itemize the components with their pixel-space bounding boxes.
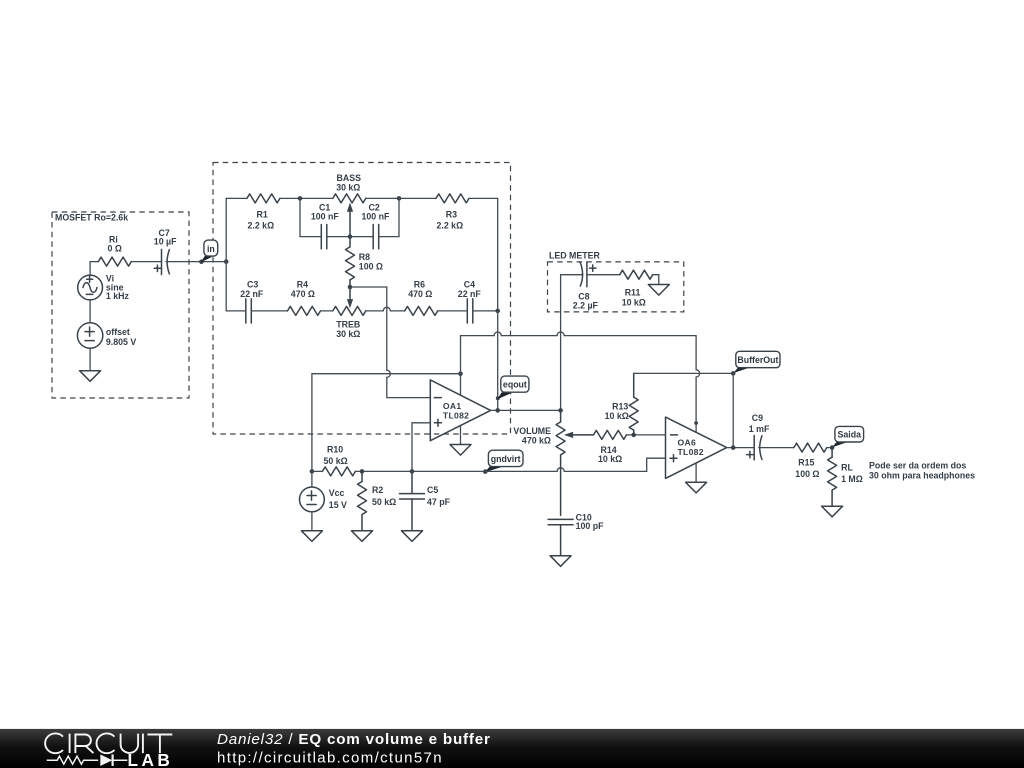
svg-text:gndvirt: gndvirt	[491, 454, 521, 464]
wire R14 to OA6 minus	[627, 434, 666, 436]
wire C7 to node in	[166, 261, 226, 263]
logo CIRCUIT	[45, 733, 172, 753]
wire C1 branch down	[300, 198, 321, 236]
node flag Saida	[832, 426, 863, 447]
resistor Ri	[98, 234, 131, 266]
resistor R1	[247, 194, 280, 231]
junction top rail right	[397, 196, 402, 201]
svg-text:C9: C9	[752, 413, 763, 423]
ground (RL)	[822, 506, 843, 517]
wire center to C2	[350, 236, 373, 238]
wire hop (gndvirt rail over volume bottom)	[557, 468, 564, 472]
wire bottom row left	[226, 310, 246, 312]
wire feedback R13 to BufferOut with hop	[634, 372, 734, 374]
wire R8 junction to minus branch	[350, 287, 430, 398]
resistor R2	[358, 471, 397, 530]
wire hop (V+ rail over volume rail)	[557, 332, 564, 336]
svg-text:R1: R1	[257, 210, 268, 220]
dashed box LED METER	[548, 251, 684, 312]
junction OA1 V+ tee	[458, 371, 463, 376]
svg-text:1 MΩ: 1 MΩ	[841, 474, 863, 484]
svg-text:BufferOut: BufferOut	[737, 355, 778, 365]
svg-text:LAB: LAB	[128, 750, 174, 768]
svg-text:R8: R8	[359, 252, 370, 262]
svg-text:in: in	[207, 244, 215, 254]
voltage source offset	[77, 323, 136, 348]
wire V+ rail left	[312, 374, 461, 472]
wire OA1 V+ pin	[460, 374, 462, 395]
potentiometer TREB wiper	[347, 287, 353, 308]
svg-text:R13: R13	[612, 401, 628, 411]
wire Vcc to ground	[311, 512, 313, 531]
svg-text:Daniel32 / EQ com volume e buf: Daniel32 / EQ com volume e buffer	[217, 731, 491, 748]
wire OA6 V- pin	[695, 463, 697, 482]
wire R1 to BASS	[280, 197, 333, 199]
svg-text:30 kΩ: 30 kΩ	[336, 182, 360, 192]
svg-text:VOLUME: VOLUME	[513, 426, 551, 436]
junction OA6 V+ pin	[694, 421, 698, 425]
wire Ri to C7	[131, 261, 161, 263]
svg-text:100 Ω: 100 Ω	[359, 262, 383, 272]
capacitor C10	[548, 512, 604, 555]
op-amp OA6	[666, 417, 727, 478]
wire OA6 output	[727, 447, 755, 449]
wire hop (OA6 V+ over feedback)	[696, 370, 700, 377]
potentiometer VOLUME	[513, 410, 593, 515]
capacitor C1	[311, 203, 339, 249]
capacitor C8 (polarized)	[573, 262, 599, 310]
svg-text:OA1: OA1	[443, 401, 462, 411]
resistor RL	[828, 448, 863, 507]
junction right rail C4	[495, 309, 500, 314]
junction Vcc R10	[310, 469, 315, 474]
resistor R6	[405, 280, 438, 316]
wire top rail left	[226, 197, 247, 199]
svg-text:OA6: OA6	[678, 437, 697, 447]
wire TREB to R6 with hop	[366, 310, 384, 312]
capacitor C2	[362, 203, 390, 249]
svg-text:30 ohm para headphones: 30 ohm para headphones	[869, 471, 975, 481]
svg-text:MOSFET Ro=2.6k: MOSFET Ro=2.6k	[55, 213, 128, 223]
resistor R3	[436, 194, 469, 231]
svg-text:10 kΩ: 10 kΩ	[622, 297, 646, 307]
resistor R10	[312, 445, 356, 476]
svg-text:0 Ω: 0 Ω	[108, 243, 122, 253]
resistor R14	[594, 430, 627, 464]
svg-text:10 kΩ: 10 kΩ	[598, 454, 622, 464]
junction R13 R14	[631, 433, 636, 438]
wire LED tap corner	[561, 275, 583, 408]
op-amp OA1	[430, 380, 490, 441]
dashed box EQ	[213, 163, 511, 435]
ground (source)	[80, 371, 101, 382]
junction output volume	[558, 408, 563, 413]
svg-text:50 kΩ: 50 kΩ	[372, 497, 396, 507]
wire R10 to R2 junction	[355, 470, 412, 472]
svg-text:100 nF: 100 nF	[362, 212, 390, 222]
svg-text:10 µF: 10 µF	[154, 237, 177, 247]
node flag in	[199, 240, 218, 264]
svg-text:2.2 µF: 2.2 µF	[573, 301, 599, 311]
wire BufferOut corner down to output	[732, 373, 734, 447]
wire R4 to TREB	[321, 310, 333, 312]
wire V+ rail up and right	[461, 336, 697, 433]
svg-text:LED METER: LED METER	[549, 251, 600, 261]
svg-text:RL: RL	[841, 462, 853, 472]
wire OA1 output	[491, 409, 561, 411]
svg-text:eqout: eqout	[503, 380, 527, 390]
svg-text:100 Ω: 100 Ω	[795, 469, 819, 479]
resistor R15	[794, 443, 827, 479]
wire OA1 plus input down	[412, 423, 430, 472]
junction top rail left	[298, 196, 303, 201]
svg-text:R15: R15	[798, 458, 814, 468]
capacitor C5	[400, 471, 451, 530]
wire right rail down to OA1 output	[497, 311, 499, 411]
ground (OA1)	[450, 445, 471, 456]
wire C9 to R15	[759, 447, 794, 449]
potentiometer TREB	[333, 306, 366, 339]
wire BASS to R3	[366, 197, 436, 199]
svg-text:TL082: TL082	[678, 447, 704, 457]
svg-text:47 pF: 47 pF	[427, 497, 451, 507]
wire hop (bottom row over minus branch)	[383, 307, 390, 311]
resistor R11	[620, 270, 653, 307]
junction OA6 output	[731, 445, 736, 450]
wire OA1 V- pin	[460, 425, 462, 444]
ground (C10)	[550, 556, 571, 567]
note text	[869, 461, 975, 481]
logo wire and resistor	[47, 756, 128, 764]
node flag gndvirt	[483, 450, 523, 474]
junction R8 bottom	[348, 285, 353, 290]
ground (OA6)	[686, 482, 707, 493]
wire R3 to right rail corner	[469, 198, 498, 308]
wire C3 to R4	[251, 310, 287, 312]
wire offset to ground	[89, 348, 91, 371]
svg-text:30 kΩ: 30 kΩ	[336, 329, 360, 339]
wire hop (vertical over V+ rail)	[387, 370, 391, 377]
wire C4 to right rail	[473, 310, 498, 312]
junction Saida	[830, 445, 835, 450]
svg-text:2.2 kΩ: 2.2 kΩ	[437, 221, 464, 231]
svg-text:TREB: TREB	[336, 320, 360, 330]
wire Vi top	[90, 262, 98, 276]
svg-text:BASS: BASS	[337, 173, 362, 183]
voltage source Vi	[78, 273, 130, 301]
svg-text:470 Ω: 470 Ω	[291, 289, 315, 299]
svg-text:100 nF: 100 nF	[311, 212, 339, 222]
voltage source Vcc	[300, 471, 348, 511]
svg-text:R10: R10	[327, 445, 343, 455]
svg-text:50 kΩ: 50 kΩ	[324, 456, 348, 466]
svg-text:9.805 V: 9.805 V	[106, 337, 136, 347]
node flag BufferOut	[733, 351, 780, 373]
svg-text:10 kΩ: 10 kΩ	[605, 411, 629, 421]
capacitor C7 (polarized)	[154, 228, 177, 275]
capacitor C4	[458, 280, 482, 323]
svg-text:Vcc: Vcc	[329, 488, 345, 498]
svg-text:2.2 kΩ: 2.2 kΩ	[248, 221, 275, 231]
wire C8 to R11	[587, 274, 620, 276]
svg-text:Pode ser da ordem dos: Pode ser da ordem dos	[869, 461, 966, 471]
svg-text:1 kHz: 1 kHz	[106, 291, 130, 301]
wire Vi to offset	[89, 300, 91, 323]
wire input rail	[225, 198, 227, 311]
wire C1 to center	[327, 236, 350, 238]
wire hop to R6	[390, 310, 404, 312]
svg-text:C5: C5	[427, 485, 438, 495]
wire R6 to C4	[438, 310, 468, 312]
resistor R13	[605, 373, 639, 435]
wire gndvirt rail	[412, 458, 666, 471]
svg-text:R3: R3	[446, 210, 457, 220]
ground (C5)	[402, 531, 423, 542]
junction C1 C2 R8	[348, 234, 353, 239]
junction output eqout rail	[495, 408, 500, 413]
svg-text:offset: offset	[106, 327, 130, 337]
wire R15 to Saida node	[827, 447, 832, 449]
footer bar	[0, 729, 1024, 768]
ground (Vcc)	[301, 531, 322, 542]
ground (LED meter)	[648, 285, 669, 296]
potentiometer BASS	[333, 173, 366, 237]
ground (R2)	[352, 531, 373, 542]
svg-text:R11: R11	[625, 287, 641, 297]
svg-text:22 nF: 22 nF	[240, 289, 264, 299]
svg-text:1 mF: 1 mF	[749, 424, 770, 434]
svg-text:http://circuitlab.com/ctun57n: http://circuitlab.com/ctun57n	[217, 750, 443, 767]
wire hop (V+ rail over eqout rail)	[494, 332, 501, 336]
junction R2	[360, 469, 365, 474]
node flag eqout	[496, 376, 529, 400]
junction (in rail)	[224, 259, 229, 264]
svg-text:Saida: Saida	[838, 429, 862, 439]
svg-text:R2: R2	[372, 485, 383, 495]
resistor R4	[288, 280, 321, 316]
capacitor C9 (polarized)	[747, 413, 770, 460]
wire R11 to ground	[653, 275, 659, 285]
junction C5 plus input	[410, 469, 415, 474]
svg-text:470 Ω: 470 Ω	[408, 289, 432, 299]
svg-text:TL082: TL082	[443, 410, 469, 420]
capacitor C3	[240, 280, 264, 323]
resistor R8	[346, 237, 383, 287]
junction BufferOut corner	[731, 371, 736, 376]
svg-text:100 pF: 100 pF	[576, 521, 604, 531]
wire C2 up to rail	[379, 198, 399, 236]
svg-text:470 kΩ: 470 kΩ	[522, 436, 551, 446]
svg-text:15 V: 15 V	[329, 500, 347, 510]
dashed box MOSFET source model	[52, 212, 189, 398]
logo diode	[100, 754, 112, 766]
svg-text:22 nF: 22 nF	[458, 289, 482, 299]
